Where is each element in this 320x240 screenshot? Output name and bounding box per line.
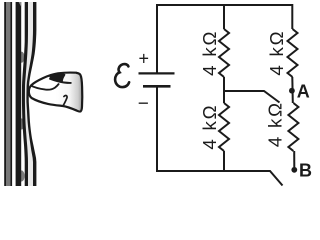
svg-text:4 kΩ: 4 kΩ <box>265 101 286 147</box>
svg-text:−: − <box>138 93 149 114</box>
svg-text:+: + <box>139 48 150 68</box>
svg-text:4 kΩ: 4 kΩ <box>199 30 220 76</box>
svg-text:B: B <box>299 160 312 180</box>
svg-text:4 kΩ: 4 kΩ <box>266 30 287 76</box>
svg-text:A: A <box>297 82 310 102</box>
svg-text:4 kΩ: 4 kΩ <box>199 104 220 150</box>
